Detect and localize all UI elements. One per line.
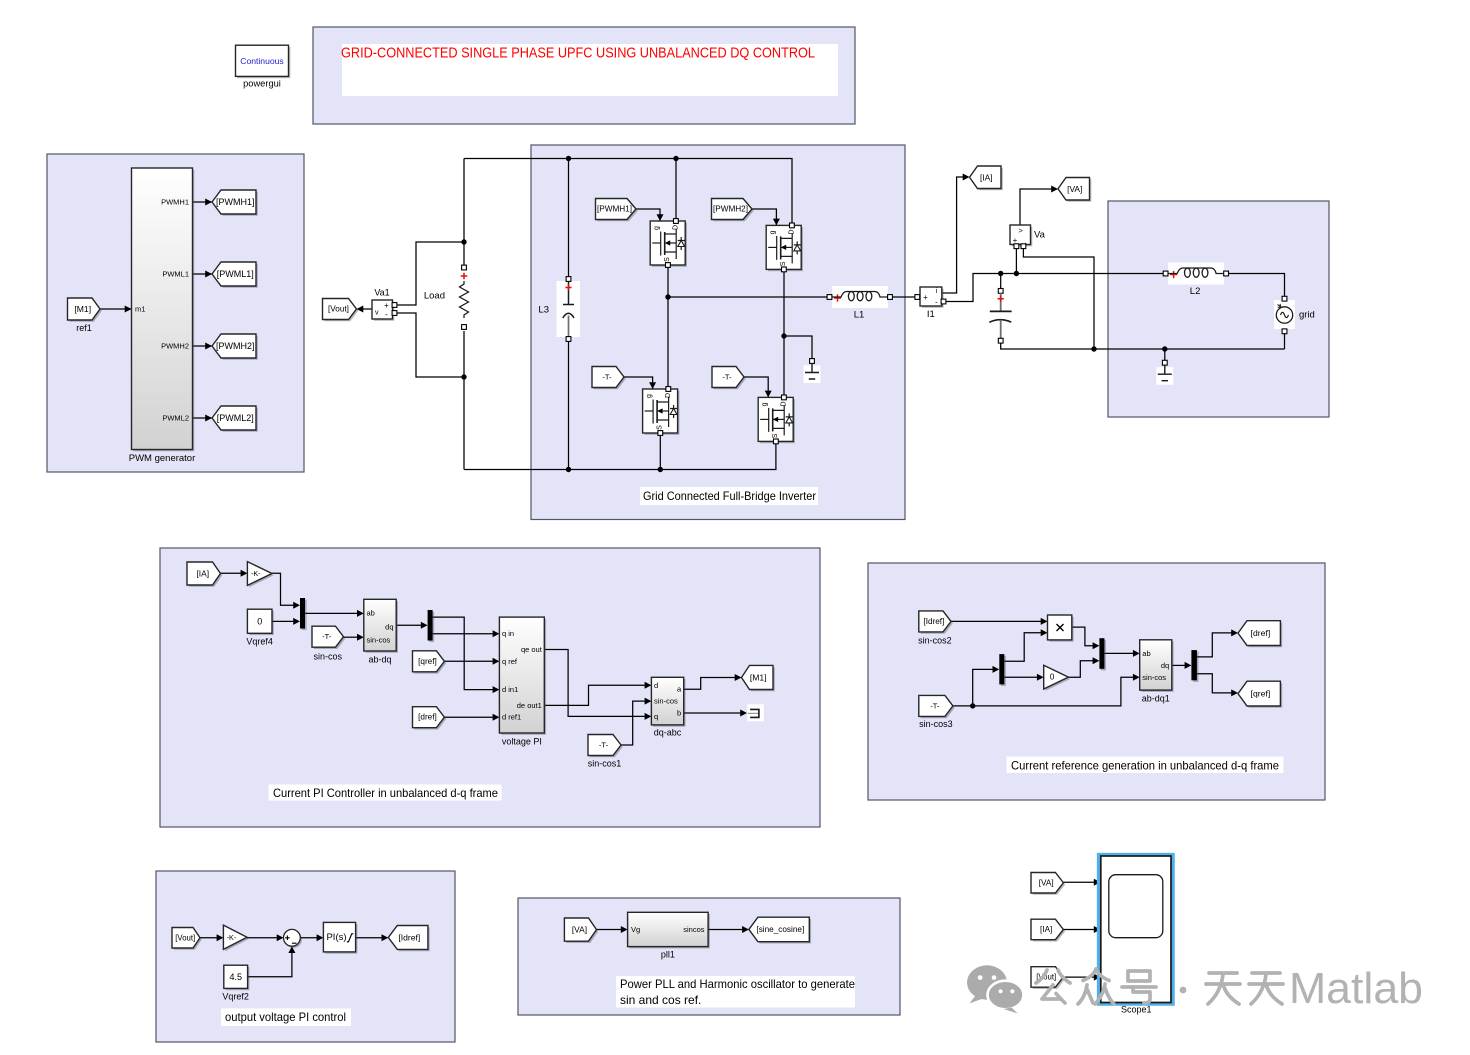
- svg-text:[PWML1]: [PWML1]: [217, 269, 254, 279]
- wire: [Idref] to product: [951, 620, 1041, 622]
- goto tag [M1]: [743, 667, 775, 691]
- gain -K- (current): [249, 563, 274, 587]
- wire: demux to product in2: [1004, 633, 1041, 662]
- from tag [VA] pll: [566, 920, 598, 943]
- svg-text:q ref: q ref: [502, 657, 518, 666]
- svg-text:d ref1: d ref1: [502, 713, 521, 722]
- svg-text:>: >: [1019, 226, 1024, 235]
- wire: sin-cos3 branch to demux: [973, 669, 993, 706]
- gain 0: [1046, 667, 1071, 691]
- svg-text:[PWMH1]: [PWMH1]: [216, 197, 255, 207]
- svg-text:-T-: -T-: [599, 741, 609, 750]
- wire: gain 0 to mux in2: [1068, 661, 1093, 678]
- from tag [IA] scope: [1033, 921, 1065, 942]
- terminator (b output): [747, 704, 764, 721]
- svg-text:Load: Load: [424, 291, 445, 302]
- svg-text:Vqref2: Vqref2: [222, 992, 249, 1002]
- svg-text:g: g: [646, 394, 653, 398]
- wire: [PWMH2] to Q2 gate: [752, 209, 776, 225]
- PWM generator subsystem block: [133, 170, 194, 452]
- section area: Current reference generation: [868, 563, 1325, 800]
- svg-text:Va1: Va1: [374, 288, 389, 298]
- transistor Q3 (MOSFET lower-left): [644, 391, 679, 435]
- transistor Q2 (MOSFET upper-right): [768, 227, 803, 271]
- wire: DC top bus: [464, 159, 792, 226]
- svg-text:[Idref]: [Idref]: [398, 932, 420, 942]
- svg-text:[dref]: [dref]: [418, 713, 437, 722]
- svg-text:Scope1: Scope1: [1121, 1005, 1152, 1015]
- svg-text:[qref]: [qref]: [1251, 689, 1271, 699]
- goto tag [PWML1]: [214, 264, 258, 288]
- svg-text:v: v: [375, 310, 379, 317]
- wire: ab-dq1 dq to demux1: [1172, 664, 1185, 666]
- svg-text:D: D: [781, 401, 788, 406]
- wire: bridge right leg to ground: [784, 336, 812, 359]
- goto tag [VA]: [1060, 179, 1092, 202]
- wire: demux1 out2 to [qref]: [1197, 674, 1232, 693]
- svg-text:ab: ab: [1142, 649, 1150, 658]
- wire: PWML1 to [PWML1]: [193, 273, 213, 275]
- wire: Vqref4 to mux in2: [272, 620, 294, 622]
- svg-text:D: D: [789, 229, 796, 234]
- svg-text:g: g: [770, 230, 777, 234]
- wire: demux out1 to d in1: [433, 617, 493, 690]
- powergui block: [237, 47, 290, 78]
- wire: L2 to grid source: [1229, 274, 1285, 298]
- svg-text:Va: Va: [1034, 230, 1046, 241]
- goto tag [PWML2]: [214, 408, 258, 432]
- demux (dq ref split): [1193, 652, 1199, 682]
- wire: [VA] to scope: [1063, 881, 1094, 883]
- from tag ref1 [M1]: [69, 300, 102, 322]
- wire: [IA] to scope: [1063, 929, 1094, 931]
- wire: qe out to q: [544, 650, 644, 717]
- svg-text:qe out: qe out: [521, 645, 543, 654]
- wire: bus to Q1 drain: [675, 159, 677, 222]
- svg-text:Current reference generation i: Current reference generation in unbalanc…: [1011, 758, 1279, 772]
- mux (dq ref): [1101, 640, 1106, 671]
- svg-text:[VA]: [VA]: [1067, 184, 1082, 194]
- svg-text:Vqref4: Vqref4: [246, 637, 273, 647]
- svg-text:Vg: Vg: [631, 925, 640, 934]
- svg-text:+: +: [923, 293, 928, 302]
- svg-text:I1: I1: [927, 309, 935, 320]
- svg-text:sin and cos ref.: sin and cos ref.: [620, 993, 701, 1007]
- svg-text:-T-: -T-: [722, 373, 732, 382]
- wire: load branch vertical: [463, 159, 465, 470]
- svg-text:b: b: [677, 709, 681, 718]
- svg-text:Power PLL and Harmonic oscilla: Power PLL and Harmonic oscillator to gen…: [620, 977, 855, 991]
- svg-text:PI(s): PI(s): [326, 932, 346, 943]
- wire: Va1 - to load bottom: [395, 313, 465, 377]
- svg-text:S: S: [664, 257, 671, 262]
- svg-text:D: D: [665, 393, 672, 398]
- mux (current controller): [302, 600, 307, 631]
- ground (grid return): [1156, 367, 1173, 385]
- wire: Va1 v to [Vout]: [362, 308, 372, 310]
- svg-text:sin-cos: sin-cos: [1142, 673, 1166, 682]
- wire: [qref] to q ref: [444, 660, 492, 662]
- svg-text:ab-dq1: ab-dq1: [1142, 694, 1170, 704]
- wire: return bus to ground: [1164, 349, 1166, 361]
- wire: sin-cos to ab-dq: [344, 636, 358, 638]
- svg-text:pll1: pll1: [661, 950, 675, 960]
- label: Current reference generation in unbalanced d-q frame: [1007, 757, 1284, 774]
- svg-text:0: 0: [1050, 673, 1055, 682]
- svg-text:g: g: [654, 226, 661, 230]
- voltage measurement Va: [1012, 227, 1033, 247]
- from tag [qref]: [414, 653, 446, 674]
- ground (inverter right leg): [804, 366, 821, 384]
- svg-text:sincos: sincos: [683, 925, 705, 934]
- wire: [Vout] to scope: [1063, 976, 1094, 978]
- watermark: text 公众号·天天Matlab: [1036, 969, 1283, 1004]
- svg-text:PWMH2: PWMH2: [161, 342, 189, 351]
- wire: dq-abc b to terminator: [684, 712, 742, 714]
- wire: dq-abc a to [M1]: [684, 678, 736, 690]
- wire: sum to PI: [300, 937, 317, 939]
- svg-text:dq-abc: dq-abc: [654, 728, 682, 738]
- capacitor L3: [557, 281, 581, 337]
- wire: cap top lead: [1000, 274, 1002, 290]
- resistor Load: [455, 265, 474, 331]
- svg-text:-T-: -T-: [930, 701, 940, 710]
- svg-text:L2: L2: [1190, 286, 1201, 297]
- transistor Q1 (MOSFET upper-left): [652, 223, 687, 267]
- svg-text:sin-cos3: sin-cos3: [919, 719, 953, 729]
- wire: ref1 to m1: [100, 308, 132, 310]
- subsystem pll1: [629, 914, 710, 948]
- svg-text:-T-: -T-: [602, 373, 612, 382]
- svg-text:Current PI Controller in unbal: Current PI Controller in unbalanced d-q …: [273, 786, 498, 800]
- from tag [PWMH1]: [597, 200, 638, 221]
- section area: Current PI Controller: [160, 548, 820, 827]
- svg-text:[VA]: [VA]: [1039, 878, 1054, 887]
- svg-text:4.5: 4.5: [229, 972, 242, 982]
- sum block: [285, 931, 302, 948]
- wire: [VA] to pll1: [597, 929, 622, 931]
- from tag [Vout] scope: [1033, 969, 1065, 990]
- svg-text:[sine_cosine]: [sine_cosine]: [756, 925, 804, 934]
- wire: bottom return bus: [1001, 342, 1285, 349]
- wire: PWMH2 to [PWMH2]: [193, 345, 213, 347]
- wire: gain to sum: [247, 937, 277, 939]
- PID controller PI(s): [325, 924, 357, 954]
- svg-text:S: S: [657, 425, 664, 430]
- svg-text:[qref]: [qref]: [418, 657, 437, 666]
- wire: Q2 source to Q4 drain: [783, 270, 785, 396]
- label: Current PI Controller in unbalanced d-q frame: [269, 785, 502, 801]
- svg-text:S: S: [780, 261, 787, 266]
- from tag [PWMH2]: [713, 200, 754, 221]
- svg-text:[VA]: [VA]: [572, 925, 587, 935]
- svg-text:[Vout]: [Vout]: [328, 305, 349, 314]
- svg-text:Continuous: Continuous: [240, 56, 283, 66]
- svg-text:L3: L3: [538, 305, 549, 316]
- wire: -T- to Q4 gate: [744, 377, 768, 397]
- svg-text:powergui: powergui: [243, 79, 281, 89]
- goto tag [qref]: [1240, 683, 1282, 708]
- wire: ab-dq dq to demux: [396, 624, 421, 626]
- wire: Q3 source to bottom bus: [659, 434, 661, 470]
- svg-text:d in1: d in1: [502, 685, 518, 694]
- goto tag [PWMH2]: [214, 336, 258, 360]
- wire: sin-cos1 to dq-abc: [621, 701, 645, 745]
- from tag [VA] scope: [1033, 874, 1065, 895]
- wire: L3 top lead: [568, 159, 570, 279]
- label: Power PLL and Harmonic oscillator: [616, 976, 855, 1008]
- svg-text:D: D: [673, 225, 680, 230]
- wire: PWMH1 to [PWMH1]: [193, 201, 213, 203]
- from tag -T- (Q3 gate): [594, 368, 626, 389]
- wire: I1 - to L2: [944, 274, 1166, 302]
- svg-text:-K-: -K-: [227, 933, 237, 942]
- svg-text:-: -: [385, 310, 388, 319]
- svg-text:L1: L1: [854, 310, 865, 321]
- subsystem dq-abc: [653, 679, 685, 727]
- wire: demux out2 to q in: [433, 633, 493, 635]
- svg-text:q in: q in: [502, 629, 514, 638]
- goto tag [IA]: [971, 168, 1003, 191]
- from tag -T- sin-cos: [314, 628, 346, 649]
- constant Vqref2: [226, 967, 250, 990]
- inductor L2: [1168, 263, 1224, 285]
- svg-text:[IA]: [IA]: [196, 569, 209, 579]
- title annotation text: [342, 44, 838, 96]
- svg-text:d: d: [654, 681, 658, 690]
- label: output voltage PI control: [221, 1009, 351, 1027]
- scope Scope1 (selected): [1099, 855, 1173, 1004]
- section area: Grid Connected Full-Bridge Inverter: [531, 145, 905, 520]
- svg-text:-T-: -T-: [322, 632, 332, 641]
- svg-text:[Vout]: [Vout]: [175, 933, 195, 942]
- wire: DC bottom bus: [464, 444, 776, 470]
- svg-text:+: +: [384, 301, 389, 310]
- demux (sin-cos split): [1001, 656, 1006, 686]
- wire: [PWMH1] to Q1 gate: [636, 209, 660, 221]
- label: Grid Connected Full-Bridge Inverter: [640, 487, 818, 505]
- subsystem ab-dq: [366, 601, 398, 653]
- section area: output voltage PI control: [156, 871, 455, 1042]
- svg-text:dq: dq: [1161, 661, 1169, 670]
- goto tag [dref]: [1240, 623, 1282, 648]
- from tag [dref]: [414, 709, 446, 730]
- from tag [IA]: [189, 564, 223, 587]
- svg-text:sin-cos: sin-cos: [654, 697, 678, 706]
- demux (current controller): [429, 612, 434, 643]
- wire: demux to gain 0: [1004, 676, 1037, 678]
- wire: mux to ab-dq1 ab: [1104, 652, 1133, 654]
- svg-text:PWML2: PWML2: [162, 414, 189, 423]
- wire: [IA] to gain: [221, 572, 242, 574]
- svg-text:[M1]: [M1]: [74, 304, 91, 314]
- voltage measurement Va1: [374, 302, 395, 321]
- svg-text:PWMH1: PWMH1: [161, 198, 189, 207]
- wire: de out1 to d: [544, 685, 644, 705]
- wire: pll1 to [sine_cosine]: [708, 929, 743, 931]
- wire: -T- to Q3 gate: [624, 377, 653, 389]
- svg-text:ab-dq: ab-dq: [368, 655, 391, 665]
- svg-text:-: -: [935, 298, 938, 307]
- svg-text:ref1: ref1: [76, 323, 92, 333]
- from tag [Idref] sin-cos2: [921, 613, 953, 634]
- wire: sin-cos3 to ab-dq1 sin-cos: [953, 677, 1133, 706]
- svg-text:S: S: [772, 433, 779, 438]
- svg-text:[M1]: [M1]: [750, 672, 767, 682]
- wire: bridge output to L1: [668, 296, 832, 298]
- svg-text:[Idref]: [Idref]: [923, 617, 944, 626]
- svg-text:ab: ab: [367, 609, 375, 618]
- svg-text:voltage PI: voltage PI: [502, 737, 542, 747]
- wire: PI to [Idref]: [356, 937, 383, 939]
- gain -K- (voltage): [225, 927, 249, 951]
- svg-text:PWM generator: PWM generator: [129, 453, 196, 464]
- svg-text:[PWML2]: [PWML2]: [217, 413, 254, 423]
- svg-text:sin-cos2: sin-cos2: [918, 636, 952, 646]
- svg-text:0: 0: [257, 616, 262, 626]
- wire: L3 bottom lead: [568, 341, 570, 470]
- inductor L1: [832, 286, 888, 308]
- watermark: WeChat icon: [967, 965, 1024, 1013]
- wire: I1 i output to [IA]: [942, 177, 964, 293]
- svg-text:Grid Connected Full-Bridge Inv: Grid Connected Full-Bridge Inverter: [643, 489, 816, 503]
- svg-text:g: g: [762, 402, 769, 406]
- svg-text:[PWMH1]: [PWMH1]: [597, 205, 632, 214]
- svg-text:de out1: de out1: [517, 701, 542, 710]
- svg-text:[IA]: [IA]: [980, 172, 993, 182]
- section area: PWM generator subsystem: [47, 154, 304, 472]
- svg-text:[dref]: [dref]: [1251, 628, 1271, 638]
- svg-text:sin-cos: sin-cos: [367, 636, 391, 645]
- wire: mux to ab-dq ab: [305, 612, 357, 614]
- svg-text:output voltage PI control: output voltage PI control: [225, 1010, 346, 1024]
- AC source grid: [1274, 300, 1295, 329]
- from tag -T- sin-cos1: [590, 736, 623, 757]
- from tag -T- (Q4 gate): [714, 368, 746, 389]
- wire: Va - lead to return bus: [1023, 248, 1094, 349]
- svg-text:dq: dq: [385, 623, 393, 632]
- svg-text:[PWMH2]: [PWMH2]: [216, 341, 255, 351]
- svg-text:sin-cos: sin-cos: [314, 652, 343, 662]
- capacitor C (DC link): [988, 293, 1013, 338]
- wire: Va v output to [VA]: [1020, 189, 1053, 225]
- svg-text:m1: m1: [135, 305, 145, 314]
- svg-text:[PWMH2]: [PWMH2]: [713, 205, 748, 214]
- svg-text:PWML1: PWML1: [162, 270, 189, 279]
- svg-text:GRID-CONNECTED SINGLE PHASE UP: GRID-CONNECTED SINGLE PHASE UPFC USING U…: [341, 45, 815, 62]
- svg-text:sin-cos1: sin-cos1: [588, 759, 622, 769]
- svg-text:grid: grid: [1299, 310, 1315, 321]
- svg-text:q: q: [654, 712, 658, 721]
- product block: [1049, 617, 1073, 642]
- current measurement I1: [922, 289, 944, 308]
- wire: Va + lead: [1015, 248, 1017, 274]
- section area: Power PLL: [518, 898, 900, 1015]
- wire: grid source to return bus: [1284, 333, 1286, 349]
- section area: grid: [1108, 201, 1329, 417]
- from tag [Vout]: [174, 929, 202, 950]
- goto tag [sine_cosine]: [751, 919, 811, 944]
- wire: [dref] to d ref1: [444, 716, 492, 718]
- wire: [Vout] to gain: [200, 937, 217, 939]
- wire: Va1 + to load top: [395, 242, 465, 305]
- svg-text:Matlab: Matlab: [1289, 964, 1423, 1013]
- section area: title banner: [313, 27, 855, 124]
- goto tag [Vout]: [324, 300, 358, 321]
- from tag -T- sin-cos3: [921, 697, 955, 718]
- wire: product to mux in1: [1072, 627, 1093, 646]
- wire: PWML2 to [PWML2]: [193, 417, 213, 419]
- subsystem voltage PI: [501, 619, 546, 735]
- svg-text:[IA]: [IA]: [1040, 925, 1052, 934]
- subsystem ab-dq1: [1142, 642, 1174, 692]
- goto tag [Idref]: [390, 927, 430, 951]
- goto tag [PWMH1]: [214, 192, 258, 216]
- wire: Vqref2 to sum: [248, 953, 292, 977]
- wire: demux1 out1 to [dref]: [1197, 633, 1232, 657]
- wire: Q1 source to Q3 drain: [667, 268, 669, 388]
- constant Vqref4: [249, 611, 274, 635]
- wire: L1 to I1: [893, 296, 917, 298]
- transistor Q4 (MOSFET lower-right): [760, 399, 795, 443]
- svg-text:-K-: -K-: [251, 569, 261, 578]
- wire: gain to mux in1: [272, 573, 294, 605]
